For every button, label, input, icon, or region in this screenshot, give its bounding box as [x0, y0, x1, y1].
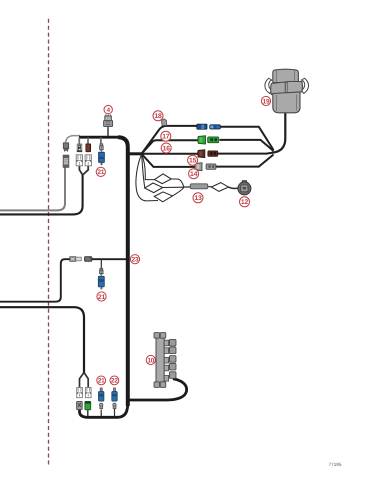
centerline dashed — [48, 19, 50, 467]
wire after tube — [184, 186, 212, 188]
wire row 14 right — [216, 155, 274, 167]
wire top harness lead-in gray — [65, 136, 80, 145]
connector 21 mid pin — [100, 268, 104, 275]
connector 22 bottom blue — [112, 392, 117, 402]
wire row 16 right — [218, 152, 275, 153]
svg-text:10: 10 — [147, 357, 154, 364]
wire top V merge to left exit — [0, 174, 83, 214]
svg-text:23: 23 — [132, 257, 139, 264]
wire top harness — [79, 136, 119, 139]
connector white mid pair right — [85, 155, 91, 166]
wire branch 23 — [92, 258, 127, 260]
wire row 18 right — [220, 127, 274, 150]
connector 21 bottom pin — [100, 388, 102, 391]
connector drop1 upper — [63, 143, 68, 151]
wire bottom V legs — [80, 373, 89, 388]
wire drop to 21 mid — [100, 259, 102, 269]
svg-text:21: 21 — [97, 169, 104, 176]
svg-text:14: 14 — [190, 171, 198, 178]
svg-text:77195: 77195 — [329, 462, 342, 467]
wire row 18 left — [142, 126, 198, 154]
wire connector4 lead — [107, 126, 109, 137]
wire drop3 — [87, 138, 89, 145]
connector bottom green — [85, 401, 91, 409]
wire bottom drops — [87, 410, 89, 417]
connector branch23 inline right — [85, 257, 92, 262]
connector 22 bottom terminal — [113, 403, 116, 409]
connector 21 bottom blue — [99, 392, 104, 402]
svg-text:22: 22 — [111, 378, 118, 385]
connector row18 blue male — [197, 124, 207, 129]
connector row17 green female — [208, 137, 219, 143]
svg-text:21: 21 — [98, 378, 105, 385]
diamond crossover 3 — [154, 192, 172, 202]
connector branch23 inline left — [70, 257, 81, 262]
connector row14 gray male — [195, 163, 202, 171]
wire bottom run — [80, 404, 128, 417]
connector 21 bottom terminal — [100, 403, 103, 409]
connector bottom gray — [77, 401, 83, 409]
wire branch to block 10 — [130, 379, 187, 400]
connector drop1 barrel — [63, 155, 69, 167]
connector 21 top blue — [99, 152, 105, 165]
connector 4 — [104, 114, 113, 126]
connector drop3 upper maroon — [86, 144, 91, 152]
wire row 14 left — [142, 154, 196, 167]
connector bottom white left — [77, 388, 83, 398]
connector row18 stub — [162, 119, 167, 126]
connector drop4 ring — [100, 144, 104, 151]
connector 22 bottom pin — [114, 388, 116, 391]
connector white mid pair left — [76, 155, 82, 166]
connector row14 gray female — [206, 164, 216, 169]
wire twist lines to diamonds — [142, 155, 156, 180]
wire hub to connector 19 — [272, 113, 285, 153]
connector 12 round — [242, 181, 246, 184]
wire gray shield drop1 to left exit — [0, 167, 65, 211]
wire row 16 left — [142, 153, 199, 155]
wire drop4 — [100, 138, 102, 145]
wire drop2 — [78, 138, 80, 145]
svg-text:18: 18 — [154, 113, 162, 120]
diamond crossover 2 — [145, 183, 163, 193]
connector drop2 upper — [77, 144, 82, 152]
svg-text:13: 13 — [194, 195, 202, 202]
wire to connector 12 — [228, 187, 238, 188]
wire row 17 left — [142, 140, 199, 154]
connector row16 brown male — [198, 150, 205, 158]
junction block 10 — [154, 333, 176, 388]
wire V feeder from left — [0, 307, 84, 373]
tube 13 — [190, 184, 208, 189]
connector 21 mid blue — [98, 276, 104, 289]
connector bottom white right — [85, 388, 91, 398]
wire main trunk — [118, 137, 128, 406]
connector row16 brown female — [208, 151, 218, 156]
connector row18 blue female — [210, 125, 221, 129]
wire hub feed — [129, 152, 142, 155]
connector row17 green male — [198, 136, 206, 144]
svg-text:17: 17 — [162, 134, 170, 141]
diamond crossover 1 — [155, 174, 172, 184]
diamond crossover 4 — [211, 183, 228, 192]
svg-text:19: 19 — [263, 98, 270, 105]
svg-text:16: 16 — [163, 145, 171, 152]
wire row 17 right — [220, 140, 274, 151]
svg-text:12: 12 — [241, 199, 249, 206]
connector 19 — [265, 69, 309, 113]
svg-text:21: 21 — [98, 294, 105, 301]
svg-text:15: 15 — [189, 158, 197, 165]
